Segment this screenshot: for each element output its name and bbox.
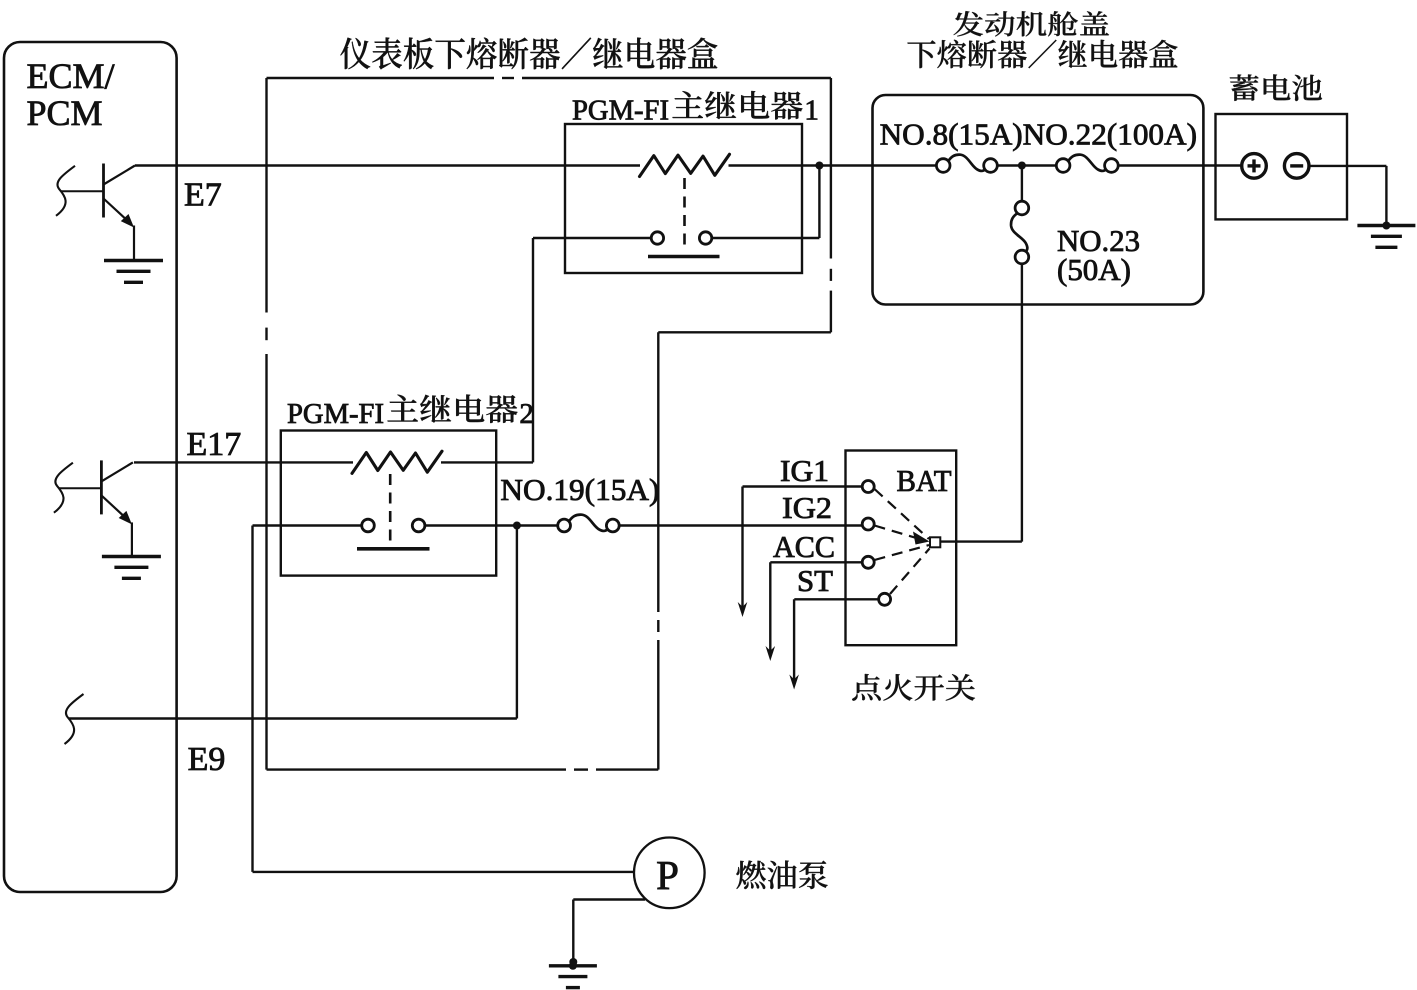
node: E9 sense junction: [513, 522, 521, 530]
ECM/PCM box: [4, 42, 177, 892]
battery box: [1216, 114, 1348, 219]
ground: [104, 259, 163, 262]
ignition switch box: [846, 451, 957, 646]
terminal IG2: [862, 518, 874, 530]
svg-text:IG2: IG2: [782, 490, 832, 525]
relay K1 contact bar: [648, 255, 720, 259]
relay K1 contact b: [699, 232, 711, 244]
ground (battery): [1382, 222, 1390, 230]
svg-text:NO.8(15A)NO.22(100A): NO.8(15A)NO.22(100A): [880, 117, 1197, 152]
svg-text:ACC: ACC: [773, 529, 835, 564]
fuse F23 NO.23(50A): [1015, 201, 1029, 215]
switch wiper dashed ACC-BAT: [875, 545, 930, 560]
wire battery negative to ground: [1309, 165, 1386, 167]
svg-text:BAT: BAT: [897, 463, 952, 498]
wire E7 main feed: [135, 164, 640, 166]
relay K2 actuation dashed link: [389, 474, 392, 546]
svg-text:(50A): (50A): [1057, 252, 1131, 287]
wire fuel pump to ground: [573, 898, 645, 900]
relay K1 contact a: [651, 232, 663, 244]
svg-text:P: P: [656, 852, 679, 898]
fuse F8 NO.8(15A): [936, 159, 950, 173]
svg-text:E7: E7: [184, 176, 222, 213]
hood label2: [907, 40, 1177, 69]
wire-continuation squiggle: [56, 166, 75, 216]
wire E17 to relay K2 coil: [134, 461, 353, 463]
switch wiper dashed ST-BAT: [890, 549, 930, 595]
relay K2 contact bar: [357, 547, 430, 551]
relay K2 contact b: [412, 519, 425, 532]
svg-text:PGM-FI: PGM-FI: [287, 398, 384, 430]
transistor base lead: [58, 487, 101, 489]
cjk label: [340, 37, 717, 69]
svg-text:PCM: PCM: [27, 93, 103, 133]
wire fuse 19 to IG2: [619, 524, 862, 526]
transistor base: [102, 164, 105, 218]
relay K2 contact a: [362, 519, 375, 532]
wire ACC branch: [770, 561, 862, 563]
svg-text:IG1: IG1: [780, 453, 829, 488]
svg-text:E17: E17: [187, 426, 242, 463]
svg-text:ST: ST: [797, 563, 833, 598]
transistor base lead: [61, 190, 104, 192]
node: main feed junction: [815, 162, 823, 170]
transistor collector: [101, 462, 132, 481]
wire ST branch: [794, 598, 878, 600]
svg-text:E9: E9: [188, 741, 226, 778]
ground: [102, 555, 161, 558]
fuse F19 NO.19(15A): [558, 519, 571, 532]
svg-text:ECM/: ECM/: [27, 56, 115, 96]
svg-text:PGM-FI: PGM-FI: [572, 95, 669, 127]
wire fuse 23 to BAT terminal: [1021, 264, 1023, 542]
relay K1 actuation dashed link: [683, 178, 686, 252]
svg-text:1: 1: [804, 95, 819, 127]
transistor collector: [104, 166, 136, 185]
transistor emitter: [101, 495, 128, 520]
relay K1 coil: [640, 154, 730, 176]
wire E9 sense: [516, 526, 518, 719]
switch wiper dashed IG1-BAT: [875, 489, 930, 539]
relay K2 box (PGM-FI main relay 2): [281, 431, 496, 576]
wire IG1 branch: [743, 485, 863, 487]
relay2 label cjk: [387, 394, 517, 423]
wire-continuation squiggle (E9): [65, 694, 84, 744]
battery - terminal: [1284, 154, 1309, 179]
hood label1: [954, 11, 1110, 36]
svg-text:NO.19(15A): NO.19(15A): [500, 472, 659, 507]
terminal ST: [879, 593, 891, 605]
emitter wire: [131, 522, 133, 556]
terminal IG1: [862, 481, 874, 493]
ignition switch label: [852, 674, 975, 701]
wire relay K1 contact a to relay K2 coil (left drop): [533, 237, 651, 239]
ground (fuel pump): [569, 962, 577, 970]
fuel pump label: [736, 860, 827, 889]
wire junction to fuse 23: [1021, 166, 1023, 202]
relay1 label cjk: [672, 91, 802, 120]
svg-text:2: 2: [519, 398, 534, 430]
wire relay K2 contact b to fuse 19: [425, 524, 558, 526]
under-dash fuse/relay box boundary (dash-dot): [267, 78, 831, 770]
transistor base: [100, 460, 103, 514]
fuse F22 NO.22(100A): [1056, 159, 1070, 173]
switch wiper dashed IG2-BAT with arrow: [875, 526, 919, 539]
transistor emitter: [104, 199, 131, 224]
battery label: [1230, 74, 1322, 101]
under-hood fuse/relay box: [873, 95, 1204, 305]
BAT common point: [930, 537, 940, 547]
relay K2 coil: [352, 451, 442, 473]
emitter wire: [133, 226, 135, 261]
fuel pump motor P: [634, 838, 705, 909]
wire-continuation squiggle: [54, 463, 73, 513]
node: NO.23 branch junction: [1018, 162, 1026, 170]
battery + terminal: [1242, 154, 1267, 179]
wire relay K1 contact b up to main feed: [712, 237, 820, 239]
terminal ACC: [862, 556, 874, 568]
relay K1 box (PGM-FI main relay 1): [565, 124, 802, 273]
wire fuel pump feed from contact a: [253, 524, 362, 526]
